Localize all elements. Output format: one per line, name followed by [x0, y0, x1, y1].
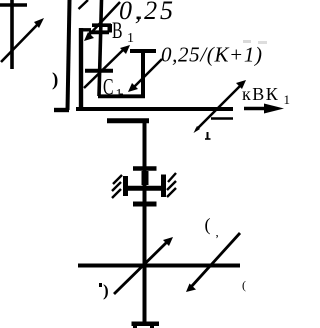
svg-text:(: ( [205, 215, 211, 236]
wire inner box right edge [141, 51, 145, 96]
wire main output line [76, 107, 233, 111]
bottom throttle adjust arrow [114, 241, 168, 294]
wire vertical through B1 and C1 [99, 0, 102, 96]
stray slash mark [79, 0, 89, 9]
wire middle vertical [143, 121, 147, 323]
wire inner box bottom edge [98, 94, 145, 98]
right throttle adjust arrow [191, 233, 240, 287]
plate T-bar [130, 49, 156, 53]
capacitor B1 bottom plate [89, 30, 109, 34]
svg-text:1: 1 [127, 31, 134, 46]
throttle C1 plate [85, 69, 113, 73]
svg-text:): ) [52, 70, 58, 91]
speck dot [120, 94, 123, 97]
throttle V0 adjust arrow [1, 24, 38, 62]
capacitor plate below main line [107, 118, 149, 123]
damper right hatching [167, 188, 176, 197]
terminal bottom T [132, 322, 160, 327]
svg-text:(: ( [242, 278, 246, 292]
throttle C1 adjust arrow [84, 49, 124, 88]
svg-text:1: 1 [284, 92, 291, 107]
damper left cap [123, 176, 128, 196]
wire bottom horizontal line [78, 264, 240, 268]
dash below line [211, 117, 233, 120]
damper left hatching [112, 189, 121, 198]
faint specks [243, 40, 251, 43]
throttle 0,25/(K+1) arrow [134, 59, 162, 87]
damper main bar [123, 186, 165, 191]
capacitor B1 top plate [92, 23, 111, 27]
speck mark [137, 17, 142, 20]
throttle V0 (left, cut off at edge) crossbar [0, 3, 27, 7]
capacitor B1 adjust arrow [89, 2, 120, 35]
wire feedback box left edge [79, 28, 83, 111]
damper stem [142, 171, 149, 185]
svg-text:кВК: кВК [242, 84, 279, 104]
tiny mark 1 [207, 132, 209, 140]
svg-text:,: , [216, 225, 219, 240]
svg-text:0,25/(К+1): 0,25/(К+1) [161, 43, 262, 67]
label ') [99, 283, 102, 287]
damper right cap [161, 175, 166, 198]
wire left L [68, 0, 70, 110]
damper top bar [133, 166, 157, 171]
capacitor B1 plate end blob [108, 24, 113, 33]
wire feedback box top edge [79, 28, 91, 31]
output throttle adjust arrow [196, 85, 241, 130]
svg-text:0,25: 0,25 [119, 0, 173, 25]
damper bottom bar [133, 202, 157, 207]
throttle V0 vertical line [10, 0, 14, 69]
svg-text:): ) [103, 281, 109, 300]
output arrow [244, 107, 266, 111]
